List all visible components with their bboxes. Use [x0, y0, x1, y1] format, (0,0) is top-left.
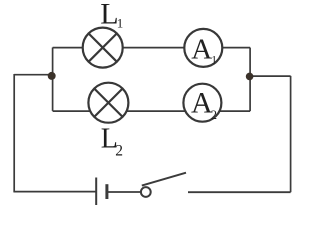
battery long plate (positive) [95, 178, 97, 206]
junction dot left node [48, 72, 56, 80]
switch lever (open) [142, 173, 186, 186]
wire: right branch vertical through right junction [249, 48, 251, 112]
label L1 [100, 0, 123, 31]
wire: switch to bottom right [188, 191, 291, 193]
svg-text:1: 1 [211, 54, 217, 66]
svg-text:2: 2 [211, 108, 217, 122]
label L2 [101, 123, 123, 159]
battery short plate (negative) [105, 184, 108, 199]
wire: bottom left to battery [13, 191, 96, 193]
wire: left branch vertical through left junction [52, 48, 54, 111]
junction dot right node [246, 73, 254, 81]
switch pivot circle [141, 187, 151, 197]
wire: left horizontal from outer loop to left junction [14, 74, 52, 76]
wire: right horizontal from right junction to outer loop [250, 75, 291, 77]
wire: battery to switch [108, 191, 141, 193]
wire: middle branch horizontal through L2 and A2 [53, 110, 251, 112]
ammeter A2 [183, 84, 221, 122]
ammeter A1 [184, 29, 222, 67]
wire: left outer vertical [13, 74, 15, 192]
svg-text:2: 2 [115, 142, 123, 159]
lamp L2 [88, 83, 128, 123]
svg-text:A: A [191, 34, 212, 66]
svg-text:A: A [191, 87, 213, 120]
wire: right outer vertical [290, 76, 292, 192]
svg-text:1: 1 [117, 16, 124, 31]
wire: top branch horizontal through L1 and A1 [53, 47, 251, 49]
lamp L1 [83, 28, 123, 68]
